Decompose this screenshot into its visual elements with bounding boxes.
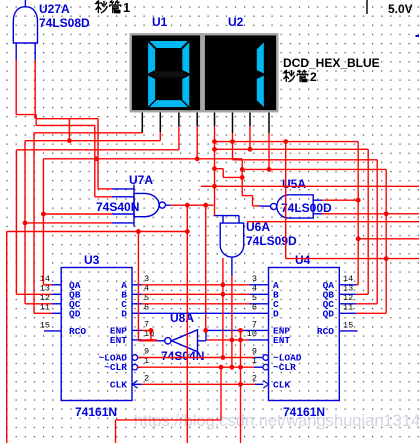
svg-text:U27A: U27A (39, 2, 70, 16)
junction A row (221, 282, 226, 287)
U6A input2 stub (238, 216, 240, 224)
junction rail1 y238 (356, 236, 361, 241)
junction yR4 on riser (240, 167, 245, 172)
wire QA net to U7A in3 (43, 213, 112, 215)
svg-text:7: 7 (144, 319, 149, 329)
segment d (150, 100, 188, 107)
wire U1 pin3 drop (178, 126, 180, 150)
U3 ~CLR pin bubble (132, 364, 138, 370)
svg-text:2: 2 (252, 373, 257, 383)
svg-text:D: D (273, 308, 279, 319)
wire U1 pin3 to QB rail (16, 149, 179, 151)
U4 D pin stub (250, 312, 269, 314)
wire U27A in2 down (34, 60, 36, 119)
QC rail to stub (25, 303, 52, 305)
wire to U5A output (253, 205, 260, 207)
U4 A pin stub (250, 284, 269, 286)
wire C row (142, 303, 250, 305)
U4 ENT pin stub (249, 339, 269, 341)
QC rail (24, 141, 26, 304)
U4 QB pin stub (339, 293, 356, 295)
U4 CLK pin stub (255, 383, 263, 385)
svg-text:5.0V: 5.0V (388, 2, 413, 16)
junction B row (221, 292, 226, 297)
junction U7A out A (185, 203, 190, 208)
U3 ~LOAD pin stub (138, 357, 142, 359)
QB rail (15, 150, 17, 294)
segment a (150, 41, 188, 48)
svg-text:74LS09D: 74LS09D (246, 234, 297, 248)
segment c of 1 (257, 76, 264, 108)
rail4 (385, 169, 387, 313)
svg-text:6: 6 (252, 302, 257, 312)
wire zigzag h2 (242, 195, 252, 197)
U3 C pin stub (132, 303, 142, 305)
wire U2 pin4 drop (268, 133, 270, 169)
rail1 (357, 142, 359, 285)
AND gate U27A 74LS08D (13, 7, 37, 43)
wire U2 pin1 long drop (214, 126, 216, 216)
wire zigzag h1 (223, 176, 242, 178)
U3 QD pin stub (52, 312, 61, 314)
U3 CLK pin stub (132, 383, 142, 385)
U3 ~CLR pin stub (138, 366, 142, 368)
wire U1 pin1 to QD rail (34, 132, 142, 134)
junction x285 vert (283, 139, 288, 144)
junction CLR down branch (219, 365, 224, 370)
U6A input bar (213, 215, 239, 217)
wire U7A output (171, 204, 214, 206)
QA rail (42, 159, 44, 285)
long vertical x205 to ENP node (205, 205, 207, 330)
wire to U7A in2 (95, 196, 112, 198)
svg-text:QD: QD (69, 308, 81, 319)
junction y186.3 (212, 184, 217, 189)
junction U7A-out to ENP node (203, 328, 208, 333)
segment e (148, 76, 155, 107)
wire U4 ENT red part (207, 339, 249, 341)
U3 QC pin stub (52, 303, 61, 305)
7-segment display U2 (204, 34, 278, 111)
U5A output stub (260, 205, 271, 207)
AND gate U6A 74LS09D (220, 223, 244, 257)
svg-text:74LS00D: 74LS00D (281, 201, 332, 215)
wire U1 pin2 drop (159, 132, 161, 141)
QB rail to stub (16, 293, 52, 295)
wire down to U7A in1 (97, 119, 99, 189)
wire U5A in1 to rail1 (322, 199, 358, 201)
svg-text:U3: U3 (84, 253, 100, 267)
svg-text:ENT: ENT (273, 335, 290, 346)
svg-text:2: 2 (144, 373, 149, 383)
junction rail1 U5A in1 (356, 198, 361, 203)
svg-text:1: 1 (123, 0, 130, 15)
rail3 (376, 160, 378, 304)
IC U4 74161N (269, 268, 340, 401)
wire U6A out down (231, 276, 233, 367)
svg-text:13: 13 (343, 283, 353, 293)
junction q2 through (230, 139, 235, 144)
svg-text:CLK: CLK (273, 379, 290, 390)
U3 ENP pin stub (132, 329, 142, 331)
wire U7A in2 feed riser (94, 125, 96, 196)
IC U3 74161N (61, 268, 132, 401)
vertical x285 (285, 142, 287, 259)
junction QC net (67, 138, 72, 143)
wire y238 to right edge (358, 238, 419, 240)
U3 ~LOAD pin bubble (132, 355, 138, 361)
U7A input3 stub (112, 213, 134, 215)
wire U8A in riser (205, 330, 207, 341)
wire y221.7 to right edge (247, 221, 419, 223)
segment g dark (150, 72, 188, 78)
junction QA feed crossing (94, 156, 99, 161)
junction x240 ENT (238, 338, 243, 343)
NAND gate U5A 74LS00D (277, 195, 313, 218)
U3 QA pin stub (52, 284, 61, 286)
svg-text:~CLR: ~CLR (104, 362, 127, 373)
junction x240 CLR (238, 365, 243, 370)
U3 CLK pin wedge (132, 381, 137, 389)
junction ENP riser (149, 328, 154, 333)
svg-text:9: 9 (252, 347, 257, 357)
svg-text:U4: U4 (295, 253, 311, 267)
U7A output stub (165, 204, 170, 206)
U4 CLK pin wedge (263, 381, 268, 389)
U7A input1 stub (112, 188, 134, 190)
svg-text:RCO: RCO (69, 326, 86, 337)
wire U5A in2 to right edge (322, 213, 419, 215)
svg-text:CLK: CLK (110, 379, 127, 390)
inverter U8A 74S04N (172, 330, 198, 352)
wire U8A out horiz (138, 340, 157, 342)
label 秒管2 (283, 70, 294, 81)
wire U3 ENP (142, 329, 151, 331)
NAND gate U7A 74S40N (133, 185, 135, 227)
junction zigzag on QA-feed riser (240, 175, 245, 180)
segment b (182, 42, 189, 73)
wire U27A in1 right (16, 114, 36, 116)
U4 ~CLR pin stub (254, 366, 263, 368)
U27A input pin 2 stub (34, 43, 36, 60)
wire U8A out riser (137, 232, 139, 341)
svg-text:RCO: RCO (317, 326, 334, 337)
U3 QB pin stub (52, 293, 61, 295)
svg-text:5: 5 (252, 293, 257, 303)
svg-text:U7A: U7A (129, 173, 153, 187)
rail2 (367, 149, 369, 294)
wire LOAD row (138, 357, 254, 359)
junction x222.9 LOAD (221, 355, 226, 360)
svg-text:https://blog.csdn.net/wangshuq: https://blog.csdn.net/wangshuqian1314 (134, 412, 419, 430)
U7A input4 stub (112, 222, 134, 224)
svg-text:74161N: 74161N (75, 405, 117, 419)
wire U3 ENT to U8A out (142, 339, 157, 341)
svg-text:14: 14 (343, 274, 353, 284)
wire y231.5 (7, 231, 188, 233)
wire U1 pin4 drop (196, 126, 198, 159)
wire zigzag v1 (222, 169, 224, 178)
wire y186.3 full (201, 185, 419, 187)
U4 QD pin stub (339, 312, 356, 314)
rail2 to QB stub (356, 293, 368, 295)
wire CLR row (138, 366, 254, 368)
U4 ~LOAD pin bubble (263, 355, 269, 361)
vertical x240.5 (240, 330, 242, 443)
svg-text:3: 3 (144, 274, 149, 284)
svg-text:74LS08D: 74LS08D (39, 16, 90, 30)
junction QA to U7A in3 (41, 212, 46, 217)
U3 RCO pin stub (44, 330, 61, 332)
U5A input1 stub (313, 199, 322, 201)
7-segment display U1 (131, 34, 202, 111)
wire U27A in2 right (36, 118, 98, 120)
label 秒管1 (95, 1, 107, 13)
wire CLR down (220, 367, 222, 420)
U8A input stub (198, 340, 207, 342)
svg-text:74S04N: 74S04N (161, 349, 204, 363)
U4 B pin stub (250, 293, 269, 295)
svg-text:~CLR: ~CLR (273, 362, 296, 373)
U3 ENT pin stub (132, 339, 142, 341)
QA rail to stub (43, 284, 52, 286)
U5A input2 stub (313, 213, 322, 215)
svg-text:U2: U2 (228, 15, 244, 29)
U6A input1 stub (222, 216, 224, 224)
U3 D pin stub (132, 312, 142, 314)
svg-text:ENT: ENT (110, 335, 127, 346)
svg-text:11: 11 (343, 302, 353, 312)
wire U7A in2 feed top (36, 124, 95, 126)
segment b of 1 (257, 42, 264, 73)
svg-text:DCD_HEX_BLUE: DCD_HEX_BLUE (283, 56, 380, 70)
svg-text:74S40N: 74S40N (96, 200, 139, 214)
svg-text:2: 2 (310, 70, 317, 84)
segment c (182, 76, 189, 107)
svg-text:D: D (121, 308, 127, 319)
wire y168.7 (215, 168, 224, 170)
wire D row blue (142, 312, 250, 314)
wire U4 ENP blue (206, 329, 249, 331)
junction x240 ENP (238, 328, 243, 333)
junction x187 vertical (185, 229, 190, 234)
wire QC net to U7A in4 (25, 222, 112, 224)
rail3 to QC stub (356, 303, 377, 305)
junction U6A out ENT (230, 338, 235, 343)
U27A input pin 1 stub (15, 43, 17, 60)
U27A output pin up (24, 0, 26, 7)
wire A row (142, 284, 250, 286)
svg-text:74161N: 74161N (283, 405, 325, 419)
vertical x222.9 (222, 258, 224, 358)
wire yR4 (242, 168, 386, 170)
U4 QC pin stub (339, 303, 356, 305)
junction q3 tap (248, 147, 253, 152)
wire yR1 (215, 141, 359, 143)
svg-text:15: 15 (40, 320, 50, 330)
QD rail (33, 133, 35, 313)
wire riser x242.2 (241, 159, 243, 196)
junction q1 yR1 (212, 139, 217, 144)
wire to U7A in1 (98, 188, 112, 190)
wire down to QC net (68, 119, 70, 141)
wire ENP to U8A out row (150, 330, 152, 340)
svg-text:12: 12 (343, 293, 353, 303)
wire y258.6 to right edge (286, 258, 419, 260)
blue stub right edge (416, 35, 419, 37)
junction pin4 on QA feed (195, 156, 200, 161)
wire yR3 (233, 159, 378, 161)
svg-text:14: 14 (40, 274, 50, 284)
junction CLK (238, 382, 243, 387)
U4 ~CLR pin bubble (263, 364, 269, 370)
U4 ENP pin stub (249, 329, 269, 331)
wire U27A in1 down (15, 60, 17, 115)
junction y168.7 (212, 166, 217, 171)
U6A output stub (231, 257, 233, 276)
segment f (148, 42, 155, 73)
svg-text:U1: U1 (152, 15, 168, 29)
junction rail4 y258 (384, 256, 389, 261)
junction U7A out B (203, 203, 208, 208)
wire x115 down (115, 420, 117, 443)
wire zigzag v2 (252, 196, 254, 206)
rail1 to QA stub (356, 284, 358, 286)
svg-text:15: 15 (343, 320, 353, 330)
QD rail to stub (34, 312, 52, 314)
svg-text:3: 3 (252, 274, 257, 284)
wire U1 pin2 to QC rail (25, 140, 160, 142)
wire y419.9 (116, 419, 222, 421)
U4 C pin stub (250, 303, 269, 305)
U7A input2 stub (112, 196, 134, 198)
rail4 to QD stub (356, 312, 386, 314)
wire U2 pin3 drop (249, 126, 251, 149)
U3 A pin stub (132, 284, 142, 286)
svg-text:4: 4 (252, 283, 257, 293)
wire QA feed line y158.8 (43, 158, 242, 160)
svg-text:7: 7 (252, 319, 257, 329)
junction rail4 U5A in2 (384, 211, 389, 216)
junction U8A riser (136, 229, 141, 234)
junction q1 yR2 (212, 147, 217, 152)
display U1 pins (141, 113, 143, 133)
U3 B pin stub (132, 293, 142, 295)
svg-text:9: 9 (144, 347, 149, 357)
long vertical x187 (186, 205, 188, 443)
U4 ~LOAD pin stub (254, 357, 263, 359)
wire jog riser (35, 115, 37, 126)
wire CLK row (142, 383, 255, 385)
junction QC to U7A in4 (23, 221, 28, 226)
5V supply stem (366, 0, 368, 14)
left rail x6.7 (6, 232, 8, 443)
svg-text:QD: QD (323, 308, 335, 319)
display U2 pins (214, 113, 216, 127)
junction CLR row (230, 365, 235, 370)
junction q4 tap (267, 167, 272, 172)
U4 RCO pin stub (339, 330, 357, 332)
wire yR2 (215, 148, 369, 150)
U4 QA pin stub (339, 284, 356, 286)
U8A output stub (157, 340, 165, 342)
wire U2 pin2 drop (232, 133, 234, 160)
wire B row (142, 293, 250, 295)
